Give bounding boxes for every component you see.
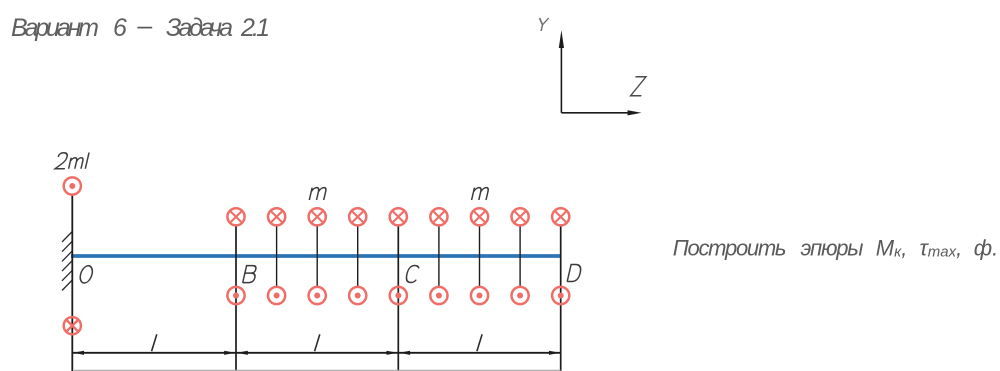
m label right	[472, 188, 489, 200]
wall hatching	[62, 232, 72, 291]
torque vector symbol (into page) column B	[227, 208, 244, 225]
column line 6	[438, 225, 440, 287]
title dash	[137, 27, 152, 29]
2ml label	[55, 153, 89, 169]
O column line	[71, 194, 73, 371]
torque vector symbol (out of page) column 3	[309, 287, 326, 304]
svg-text:эпюры: эпюры	[801, 236, 864, 261]
m label left	[309, 188, 326, 200]
svg-text:2.1: 2.1	[240, 14, 270, 42]
dimension line	[72, 352, 560, 354]
svg-text:τmax,: τmax,	[920, 236, 963, 261]
torque vector symbol (into page) column 8	[511, 208, 528, 225]
column C line	[397, 225, 399, 371]
task text "Построить эпюры Мк, τmax, ф."	[673, 236, 999, 261]
torque vector symbol (out of page) column C	[390, 287, 407, 304]
dimension arrowheads	[73, 351, 560, 355]
svg-text:ф.: ф.	[974, 236, 999, 261]
span label l (C-D)	[477, 334, 482, 351]
column line 2	[276, 225, 278, 287]
svg-text:Вариант: Вариант	[11, 14, 99, 42]
torque vector symbol (out of page) column D	[552, 287, 569, 304]
torque vector symbol (into page) column D	[552, 208, 569, 225]
Y label	[537, 18, 549, 31]
torque vector symbol (into page) column 3	[309, 208, 326, 225]
torque vector symbol (out of page) column 7	[471, 287, 488, 304]
torque vector symbol (into page) column 2	[268, 208, 285, 225]
torque vector symbol (into page) column 6	[430, 208, 447, 225]
torque vector symbol (into page) column 7	[471, 208, 488, 225]
cropped next-diagram top line	[74, 369, 561, 371]
beam (shaft)	[71, 254, 561, 258]
span label l (O-B)	[152, 334, 157, 351]
svg-text:Построить: Построить	[673, 236, 787, 261]
torque vector symbol (into page) column C	[390, 208, 407, 225]
column line 7	[479, 225, 481, 287]
torque circle 2ml (dot-out symbol)	[64, 177, 81, 194]
bottom-left torque symbol (cross-in, line passes through)	[64, 317, 81, 334]
B label	[243, 266, 258, 283]
column line 3	[316, 225, 318, 287]
column line 8	[519, 225, 521, 287]
title "Вариант 6 - Задача 2.1"	[11, 14, 270, 42]
Z label	[631, 77, 646, 96]
torque vector symbol (out of page) column 6	[430, 287, 447, 304]
svg-text:Задача: Задача	[166, 14, 233, 42]
Y axis	[559, 30, 564, 113]
span label l (B-C)	[315, 334, 320, 351]
torque vector symbol (out of page) column 4	[349, 287, 366, 304]
column D line	[560, 225, 562, 371]
Z axis	[561, 110, 641, 115]
column line 4	[357, 225, 359, 287]
D label	[567, 265, 582, 282]
svg-text:Мк,: Мк,	[876, 236, 908, 261]
torque vector symbol (out of page) column B	[227, 287, 244, 304]
torque vector symbol (out of page) column 2	[268, 287, 285, 304]
svg-text:6: 6	[113, 14, 127, 42]
torque vector symbol (out of page) column 8	[511, 287, 528, 304]
C label	[405, 266, 420, 283]
O label	[79, 266, 94, 283]
torque vector symbol (into page) column 4	[349, 208, 366, 225]
column B line	[235, 225, 237, 371]
